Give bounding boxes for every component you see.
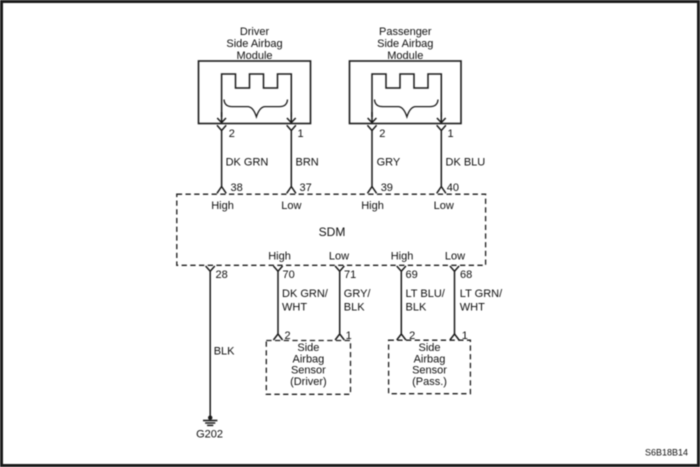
connector pin 71 SDM — [335, 266, 344, 271]
svg-text:37: 37 — [300, 182, 312, 194]
svg-text:2: 2 — [229, 128, 235, 140]
wire DK BLU circuit 40 — [440, 131, 442, 188]
connector pin 1 passenger sensor — [450, 334, 459, 340]
connector pin 2 passenger module — [367, 125, 376, 130]
svg-text:Driver: Driver — [240, 26, 270, 38]
svg-text:Side Airbag: Side Airbag — [377, 38, 433, 50]
svg-text:1: 1 — [448, 128, 454, 140]
connector pin 37 SDM — [287, 187, 296, 194]
wire GRY circuit 39 — [371, 131, 373, 188]
svg-text:Module: Module — [387, 50, 423, 62]
svg-text:DK GRN/: DK GRN/ — [282, 288, 329, 300]
passenger side airbag module box — [350, 61, 462, 124]
svg-text:WHT: WHT — [282, 301, 307, 313]
svg-text:G202: G202 — [196, 429, 223, 441]
driver module brace — [224, 100, 288, 117]
svg-text:69: 69 — [406, 269, 418, 281]
svg-text:(Driver): (Driver) — [290, 376, 327, 388]
connector pin 68 SDM — [450, 266, 459, 271]
svg-text:38: 38 — [231, 182, 243, 194]
svg-text:28: 28 — [216, 269, 228, 281]
svg-text:LT GRN/: LT GRN/ — [460, 288, 503, 300]
svg-text:DK BLU: DK BLU — [446, 157, 486, 169]
wire GRY/BLK circuit 71 — [339, 271, 341, 334]
driver side airbag module box — [199, 61, 311, 124]
svg-text:BLK: BLK — [344, 301, 365, 313]
SDM box — [177, 194, 486, 265]
svg-text:High: High — [361, 200, 384, 212]
svg-text:Low: Low — [329, 251, 349, 263]
connector pin 39 SDM — [367, 187, 376, 194]
side airbag sensor driver box — [266, 341, 350, 395]
svg-text:High: High — [391, 251, 414, 263]
svg-text:Side Airbag: Side Airbag — [226, 38, 282, 50]
wire DK GRN circuit 38 — [221, 131, 223, 188]
svg-text:Sensor: Sensor — [412, 365, 447, 377]
connector pin 70 SDM — [273, 266, 282, 271]
svg-text:(Pass.): (Pass.) — [412, 376, 447, 388]
svg-text:BLK: BLK — [214, 346, 235, 358]
svg-text:39: 39 — [381, 182, 393, 194]
connector pin 2 passenger sensor — [397, 334, 406, 340]
svg-text:Side: Side — [418, 342, 440, 354]
wire BLK circuit 28 — [209, 271, 211, 416]
svg-text:Low: Low — [434, 200, 454, 212]
svg-text:LT BLU/: LT BLU/ — [406, 288, 446, 300]
svg-text:71: 71 — [344, 269, 356, 281]
svg-text:GRY: GRY — [377, 157, 401, 169]
svg-text:SDM: SDM — [319, 225, 346, 239]
svg-text:Side: Side — [297, 342, 319, 354]
passenger squib arrow pin 2 — [368, 112, 377, 123]
svg-text:BLK: BLK — [406, 301, 427, 313]
svg-text:DK GRN: DK GRN — [226, 157, 269, 169]
svg-text:1: 1 — [298, 128, 304, 140]
connector pin 28 SDM — [206, 266, 215, 271]
svg-text:Airbag: Airbag — [414, 353, 446, 365]
label Passenger Side Airbag Module — [377, 26, 433, 62]
wire LT GRN/WHT circuit 68 — [454, 271, 456, 334]
connector pin 69 SDM — [397, 266, 406, 271]
svg-text:Low: Low — [445, 251, 465, 263]
label Side Airbag Sensor (Pass.) — [412, 342, 447, 388]
connector pin 40 SDM — [437, 187, 446, 194]
svg-text:Sensor: Sensor — [291, 365, 326, 377]
svg-text:Low: Low — [281, 200, 301, 212]
svg-text:S6B18B14: S6B18B14 — [645, 448, 688, 458]
connector pin 1 driver module — [287, 125, 296, 130]
svg-text:Module: Module — [236, 50, 272, 62]
svg-text:40: 40 — [447, 182, 459, 194]
passenger squib element — [372, 74, 441, 117]
svg-text:GRY/: GRY/ — [344, 288, 372, 300]
side airbag sensor passenger box — [389, 340, 471, 394]
svg-text:70: 70 — [283, 269, 295, 281]
svg-text:High: High — [268, 251, 291, 263]
svg-text:2: 2 — [379, 128, 385, 140]
wire LT BLU/BLK circuit 69 — [400, 271, 402, 334]
driver squib element — [222, 74, 292, 117]
svg-text:Airbag: Airbag — [293, 353, 325, 365]
driver squib arrow pin 1 — [287, 112, 296, 123]
connector pin 2 driver sensor — [273, 334, 282, 340]
connector pin 1 driver sensor — [335, 334, 344, 340]
driver squib arrow pin 2 — [217, 112, 226, 123]
connector pin 38 SDM — [217, 187, 226, 194]
connector pin 1 passenger module — [437, 125, 446, 130]
svg-text:68: 68 — [460, 269, 472, 281]
ground G202 — [203, 416, 217, 426]
connector pin 2 driver module — [217, 125, 226, 130]
svg-text:High: High — [211, 200, 234, 212]
label Side Airbag Sensor (Driver) — [290, 342, 327, 388]
wire BRN circuit 37 — [290, 131, 292, 188]
label Driver Side Airbag Module — [226, 26, 282, 62]
passenger module brace — [375, 100, 439, 117]
svg-text:Passenger: Passenger — [379, 26, 432, 38]
passenger squib arrow pin 1 — [437, 112, 446, 123]
wire DK GRN/WHT circuit 70 — [277, 271, 279, 334]
svg-text:WHT: WHT — [460, 301, 485, 313]
svg-text:BRN: BRN — [296, 157, 319, 169]
